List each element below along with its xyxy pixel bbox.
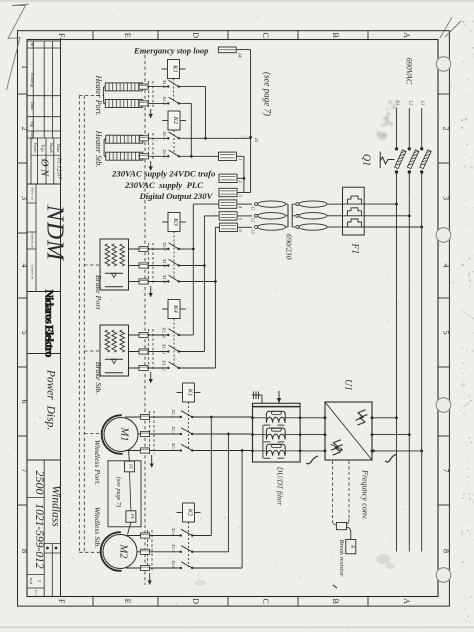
fuse block F1 <box>343 187 365 235</box>
motor M1 <box>104 418 138 452</box>
wire brake port row 2 out <box>179 265 205 267</box>
contact M2-2 <box>180 551 182 553</box>
svg-text:R: R <box>349 544 354 548</box>
terminal X 1 <box>219 152 237 160</box>
svg-text:X2:4: X2:4 <box>171 527 176 537</box>
terminal X1:3 <box>139 84 148 89</box>
wire M2 row 2 up <box>192 551 228 553</box>
svg-text:2: 2 <box>20 127 29 131</box>
heater element E1 <box>105 83 142 91</box>
svg-text:X1:4: X1:4 <box>162 95 167 105</box>
svg-text:Navn t.nr: Navn t.nr <box>31 187 35 201</box>
svg-text:L1: L1 <box>251 205 256 210</box>
svg-text:Brake Stb.: Brake Stb. <box>94 362 103 395</box>
wire F1 to bus L3 <box>364 226 422 228</box>
contact K3-3 <box>167 280 169 282</box>
svg-text:F: F <box>57 33 66 38</box>
svg-text:Windless Stb.: Windless Stb. <box>93 507 102 549</box>
svg-text:X1:6: X1:6 <box>162 148 167 158</box>
wire emergency loop to node 23 <box>236 49 251 51</box>
wire M1 row 3 to filter <box>192 450 253 452</box>
svg-text:24: 24 <box>237 53 242 58</box>
wire terminal 6 to brakes <box>215 226 219 228</box>
relay coil K2 <box>162 120 168 122</box>
border inner frame <box>27 40 438 597</box>
relay coil K3 <box>162 221 168 223</box>
svg-text:Kontr: Kontr <box>33 143 38 153</box>
pen scribble top-left corner <box>7 4 30 90</box>
wire M1 row 1 to filter <box>192 416 253 418</box>
svg-text:Windless Port.: Windless Port. <box>93 440 102 486</box>
wire terminal 5 to brakes <box>204 215 219 217</box>
wire heater E3 out <box>143 137 168 139</box>
svg-text:D: D <box>191 32 200 38</box>
wire bus L1 to U1 <box>372 417 397 419</box>
wire terminals 1-2-3 strap <box>237 155 244 157</box>
terminal X2:1 marker <box>141 414 150 419</box>
svg-text:8: 8 <box>442 549 451 553</box>
bus wire L2 down <box>408 216 410 435</box>
wire to resistor <box>347 527 351 540</box>
svg-text:Erstattet av: Erstattet av <box>31 265 35 280</box>
svg-text:01.12.07: 01.12.07 <box>55 158 62 181</box>
contact M2-3 <box>180 567 182 569</box>
relay coil K1 <box>162 68 168 70</box>
wire contact K1-1 to bus <box>179 86 206 88</box>
svg-text:Dato: Dato <box>56 144 61 152</box>
wire T1 primary to F1 L3 <box>327 226 343 228</box>
pen scribble top-right corner <box>440 17 461 38</box>
wire bus L2 to U1 <box>372 434 409 436</box>
zone letter strips top and bottom <box>92 31 94 40</box>
break resistor connection box <box>336 523 346 530</box>
wire terminal 4 to brakes <box>193 203 219 205</box>
svg-text:(see page 7): (see page 7) <box>263 72 273 116</box>
svg-text:Q1: Q1 <box>361 154 372 166</box>
wire brake stb row 3 out <box>179 367 216 369</box>
terminal X1:9 <box>139 279 148 284</box>
svg-text:E: E <box>123 599 132 604</box>
wire M1 row 1 <box>125 416 181 418</box>
wire contact K1-2 down <box>179 102 192 104</box>
transformer T1 secondary coils <box>255 203 258 206</box>
svg-text:PE: PE <box>130 513 135 519</box>
wire heater port loop <box>104 86 106 88</box>
svg-text:3: 3 <box>442 196 451 200</box>
terminal X1:11 <box>139 349 148 354</box>
svg-text:B: B <box>331 599 340 604</box>
contact K2-1 <box>167 137 169 139</box>
svg-text:230VAC supply 24VDC trafo: 230VAC supply 24VDC trafo <box>111 169 216 179</box>
wire brake port row 1 <box>129 248 168 250</box>
svg-text:2: 2 <box>37 580 42 582</box>
svg-text:6: 6 <box>20 400 29 404</box>
frequency converter U1 box <box>325 402 372 460</box>
wire F1 to bus L2 <box>364 215 409 217</box>
wire heater stb loop <box>104 138 106 140</box>
terminal X1:5 <box>140 136 149 141</box>
wire M2 row 1 up <box>192 535 211 537</box>
wire brake port row 3 <box>129 281 168 283</box>
svg-text:M1: M1 <box>119 427 130 442</box>
pencil check mark near U1 left <box>306 456 318 464</box>
svg-text:Heater Port.: Heater Port. <box>94 74 103 115</box>
svg-text:X1:3: X1:3 <box>162 79 167 88</box>
svg-text:Dato: Dato <box>30 102 35 110</box>
wire heater E4 out <box>143 155 168 157</box>
svg-text:K2: K2 <box>172 116 179 125</box>
svg-text:3: 3 <box>20 196 29 200</box>
wire filter to U1 row2 <box>300 434 325 436</box>
svg-text:X2:2: X2:2 <box>171 425 176 435</box>
svg-text:Power Disp.: Power Disp. <box>45 369 57 430</box>
DU/DT filter box <box>253 403 301 462</box>
wire brake stb row 3 <box>129 367 168 369</box>
wire heater E2 out <box>142 102 167 104</box>
machine boundary dashed <box>78 96 80 553</box>
motor M2 <box>103 535 137 569</box>
svg-text:L3: L3 <box>251 228 256 233</box>
wire brake stb row 1 out <box>179 334 194 336</box>
svg-text:DU/DT filter: DU/DT filter <box>276 466 285 506</box>
pencil check mark near U1 right <box>385 455 396 463</box>
zone number strips left and right <box>18 93 28 95</box>
cable marker brake port <box>148 243 150 285</box>
svg-text:Brake Port: Brake Port <box>94 275 103 310</box>
svg-text:X2:6: X2:6 <box>171 559 176 569</box>
contact K1-2 <box>167 102 169 104</box>
terminal X2:4 marker <box>141 533 150 538</box>
title block project number block <box>43 460 45 597</box>
terminal X 5 <box>219 212 237 220</box>
cable marker brake stb <box>148 329 150 371</box>
linkage K1 <box>173 79 175 102</box>
svg-text:Blad: Blad <box>29 578 33 585</box>
transformer T1 core <box>287 204 289 227</box>
contactor coil K6 <box>177 512 183 514</box>
terminal X1:12 <box>139 365 148 370</box>
wire terminal 6 to coil <box>238 226 252 228</box>
svg-text:U1: U1 <box>343 379 353 391</box>
wire T1 primary to F1 L1 <box>327 203 343 205</box>
svg-text:X2:1: X2:1 <box>171 408 176 417</box>
terminal X1:8 <box>139 263 148 268</box>
svg-text:F1: F1 <box>350 243 360 255</box>
wire brake stb row 2 <box>129 351 168 353</box>
svg-text:Nidaros Elektro: Nidaros Elektro <box>42 289 56 357</box>
wire filter to U1 row3 <box>300 450 325 452</box>
wire bus L3 to U1 <box>372 450 422 452</box>
title block date-signature table <box>30 138 32 184</box>
terminal X1:6 <box>140 154 149 159</box>
svg-text:X2:3: X2:3 <box>171 442 176 451</box>
terminal X 4 <box>219 200 237 208</box>
svg-text:M2: M2 <box>118 544 129 560</box>
terminal X1:7 <box>139 246 148 251</box>
svg-text:E: E <box>123 33 132 38</box>
wire PE box to M2 <box>128 522 131 534</box>
linkage K3 <box>173 232 175 280</box>
svg-text:690/230: 690/230 <box>284 234 293 260</box>
wire brake port row 1 out <box>179 248 194 250</box>
contact M1-3 <box>180 449 182 451</box>
brake port coil box <box>100 239 129 290</box>
svg-text:Heater Stb.: Heater Stb. <box>94 130 103 167</box>
transformer T1 primary coils <box>292 203 296 205</box>
contact M1-2 <box>180 433 182 435</box>
terminal X1:10 <box>139 332 148 337</box>
PE junction box between motors <box>108 461 141 527</box>
cable marker heater stb <box>148 133 150 160</box>
title block revision table <box>27 40 61 42</box>
svg-text:Tegn: Tegn <box>41 144 46 153</box>
svg-text:X1:10: X1:10 <box>162 326 167 338</box>
svg-text:X1:9: X1:9 <box>162 274 167 284</box>
svg-text:4: 4 <box>20 264 29 268</box>
svg-text:Erstatning for: Erstatning for <box>31 232 35 251</box>
bus wire L3 down <box>421 227 423 451</box>
svg-text:(see page 7): (see page 7) <box>115 477 122 507</box>
filter ground symbol <box>252 392 262 404</box>
contact K4-3 <box>167 367 169 369</box>
linkage K6 <box>188 522 190 567</box>
wire M1 row 2 to filter <box>192 433 253 435</box>
svg-text:Ø N: Ø N <box>39 158 50 177</box>
svg-text:X1:12: X1:12 <box>162 359 167 371</box>
cable marker heater port <box>148 81 150 108</box>
svg-text:X1:7: X1:7 <box>162 241 167 251</box>
wire M1 row 2 <box>137 433 181 435</box>
heater element E2 <box>105 100 142 108</box>
binder hole punches right edge <box>436 57 451 72</box>
wire brake stb row 2 out <box>179 351 205 353</box>
svg-text:Windlass: Windlass <box>50 485 62 527</box>
wire filter to U1 row1 <box>300 417 325 419</box>
terminal X2:3 marker <box>141 448 150 453</box>
svg-text:K3: K3 <box>172 217 179 226</box>
contact K3-2 <box>167 264 169 266</box>
wire U1 to break resistor dashed <box>332 461 334 522</box>
linkage K5 <box>188 402 190 448</box>
wire M2 row 3 <box>126 567 181 569</box>
pencil smudge near Q1 <box>386 119 391 124</box>
svg-text:K1: K1 <box>187 388 194 397</box>
svg-text:Bearb: Bearb <box>49 143 54 153</box>
wire to terminal 1 <box>179 155 219 157</box>
Nidaros Elektro logo <box>27 291 61 293</box>
svg-text:23: 23 <box>254 138 259 143</box>
svg-text:1: 1 <box>238 158 243 160</box>
heater element E3 <box>106 135 143 143</box>
linkage K2 <box>173 130 175 153</box>
svg-text:NDM: NDM <box>42 204 68 262</box>
wire heater E1 out <box>142 86 167 88</box>
svg-text:5: 5 <box>20 331 29 335</box>
svg-text:K1: K1 <box>172 64 179 73</box>
svg-text:K2: K2 <box>187 508 194 517</box>
svg-text:av 7: av 7 <box>34 590 38 596</box>
wire M1 row 3 <box>125 450 181 452</box>
svg-text:7: 7 <box>442 469 451 473</box>
wire node23 horizontal <box>179 137 251 139</box>
svg-text:F: F <box>57 599 66 604</box>
svg-text:X1:11: X1:11 <box>162 343 167 354</box>
cable marker windlass M2 <box>147 530 149 572</box>
svg-text:5: 5 <box>442 331 451 335</box>
svg-text:A: A <box>402 32 411 38</box>
terminal X 24 <box>218 47 236 53</box>
contact M1-1 <box>180 416 182 418</box>
svg-text:Endring: Endring <box>30 73 35 87</box>
svg-text:A: A <box>402 598 411 604</box>
svg-text:X2:5: X2:5 <box>171 543 176 553</box>
terminal X 3 <box>219 188 237 196</box>
svg-text:2: 2 <box>442 127 451 131</box>
contact M2-1 <box>180 534 182 536</box>
wire brake port row 2 <box>129 265 168 267</box>
svg-text:1: 1 <box>20 65 29 69</box>
wire brake stb row 1 <box>129 334 168 336</box>
circuit breaker Q1 poles <box>395 147 398 150</box>
svg-text:Break resistor: Break resistor <box>338 539 345 576</box>
wire terminal 5 to coil <box>238 215 253 217</box>
svg-text:Sig: Sig <box>30 121 35 127</box>
contact K3-1 <box>167 248 169 250</box>
svg-text:L2: L2 <box>408 100 413 105</box>
svg-text:X1:8: X1:8 <box>162 258 167 268</box>
svg-text:Emergancy stop loop: Emergancy stop loop <box>133 46 209 56</box>
svg-text:L2: L2 <box>251 217 256 222</box>
svg-text:1021-599-012: 1021-599-012 <box>33 503 45 568</box>
svg-text:8: 8 <box>20 549 29 553</box>
wire M2 row 3 up <box>192 567 242 569</box>
wire F1 to bus L1 <box>364 203 396 205</box>
wire T1 primary to F1 L2 <box>327 215 343 217</box>
terminal X2:5 marker <box>141 549 150 554</box>
wire M1 to PE box <box>128 451 131 462</box>
contact K4-2 <box>167 350 169 352</box>
brake stb coil box <box>100 325 129 376</box>
cabinet boundary dashed <box>144 55 146 585</box>
linkage K4 <box>173 319 175 366</box>
contact K4-1 <box>167 334 169 336</box>
wire brake port row 3 out <box>179 281 216 283</box>
svg-text:X1:5: X1:5 <box>162 130 167 140</box>
filter shield arrow <box>278 391 280 403</box>
svg-text:230VAC supply PLC: 230VAC supply PLC <box>124 180 203 190</box>
svg-text:B: B <box>331 33 340 38</box>
svg-text:690VAC: 690VAC <box>405 58 414 85</box>
svg-text:2500: 2500 <box>33 471 47 495</box>
wire M2 row 1 <box>127 535 181 537</box>
svg-text:D: D <box>191 598 200 604</box>
title block outline <box>60 38 62 597</box>
contactor coil K5 <box>177 392 183 394</box>
svg-text:L3: L3 <box>421 100 426 105</box>
svg-text:C: C <box>261 33 270 38</box>
svg-text:PE: PE <box>129 463 134 469</box>
pencil tick below break resistor <box>333 585 337 588</box>
wire M2 row 2 <box>137 551 181 553</box>
relay coil K4 <box>162 308 168 310</box>
svg-text:K4: K4 <box>172 304 179 313</box>
svg-text:C: C <box>261 599 270 604</box>
wire terminal 4 to coil <box>237 203 252 205</box>
contact K2-2 <box>167 155 169 157</box>
cable marker windlass M1 <box>149 411 151 454</box>
heater element E4 <box>106 152 143 160</box>
svg-text:7: 7 <box>20 469 29 473</box>
svg-text:Kontr: Kontr <box>30 131 34 141</box>
terminal X1:4 <box>139 101 148 106</box>
svg-text:4: 4 <box>442 264 451 268</box>
contact K1-1 <box>167 85 169 87</box>
title block small reference cells <box>35 184 37 291</box>
breaker Q1 actuator <box>380 152 395 169</box>
svg-text:Digital Output 230V: Digital Output 230V <box>139 191 214 201</box>
terminal X 6 <box>219 223 237 231</box>
terminal X2:6 marker <box>141 565 150 570</box>
terminal X2:2 marker <box>141 431 150 436</box>
terminal X 2 <box>219 174 237 182</box>
bus wire L1 down <box>396 204 398 418</box>
svg-text:Frequncy conv.: Frequncy conv. <box>360 469 369 520</box>
break resistor R1 <box>346 540 356 554</box>
